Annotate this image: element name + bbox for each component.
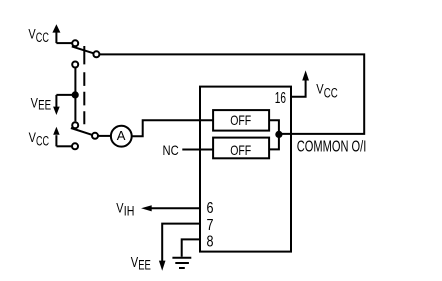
svg-text:EE: EE (38, 97, 51, 112)
svg-text:EE: EE (138, 257, 151, 272)
wire VCC arrow to switch S1b throw 2 (56, 145, 71, 147)
wire VEE arrow to junction (56, 94, 75, 96)
svg-text:7: 7 (207, 217, 214, 234)
svg-text:CC: CC (324, 86, 338, 101)
switch S1b throw contact 2 (VCC side) (72, 143, 78, 149)
power arrow VCC (pin 16) (302, 70, 309, 80)
switch S1a pole contact (93, 51, 99, 57)
supply label VEE (bottom) (131, 255, 151, 272)
switch S1b lever (71, 128, 92, 135)
switch S1a throw contact (VCC side) (72, 40, 78, 46)
svg-text:OFF: OFF (230, 142, 251, 158)
svg-text:16: 16 (275, 90, 286, 107)
svg-text:6: 6 (207, 200, 214, 217)
power arrow VEE (pin 7, pointing down) (159, 261, 166, 271)
switch S1a lever (72, 46, 93, 53)
ammeter A (111, 126, 132, 147)
ground symbol (172, 258, 191, 268)
svg-text:COMMON O/I: COMMON O/I (297, 139, 367, 156)
svg-text:OFF: OFF (230, 112, 251, 128)
OFF buffer 1 (213, 110, 269, 131)
wire ammeter to OFF buffer 1 input (132, 120, 213, 136)
svg-text:IH: IH (124, 204, 135, 219)
switch S1b throw contact (upper, VEE chain) (72, 122, 78, 128)
IC U1 outline (200, 87, 291, 252)
pin 7 wire (162, 224, 200, 261)
wire S1a pole to COMMON O/I node (top loop) (100, 54, 365, 133)
pin 16 wire (291, 80, 306, 97)
supply label VCC (top right) (316, 81, 338, 101)
svg-text:NC: NC (163, 142, 179, 158)
power arrow VCC (bottom left) (53, 127, 59, 147)
wire VCC arrow to switch S1a throw (56, 42, 72, 44)
signal label VIH (116, 200, 134, 219)
svg-text:CC: CC (36, 133, 49, 148)
power arrow VEE (left, pointing down) (53, 95, 60, 115)
supply label VCC (top left) (28, 26, 49, 46)
power arrow VCC (top left) (52, 24, 60, 43)
arrow VIH (pointing left) (141, 205, 152, 211)
pin 8 wire (182, 239, 200, 256)
pin 6 wire (151, 207, 200, 209)
switch S1b pole contact (92, 133, 98, 139)
svg-text:CC: CC (36, 30, 49, 45)
junction VEE tap (72, 91, 79, 98)
wire NC to OFF buffer 2 input (182, 149, 213, 151)
supply label VEE (left) (31, 94, 51, 112)
switch S1a throw contact 2 (lower) (72, 62, 78, 68)
OFF buffer 2 (213, 138, 269, 159)
svg-text:A: A (117, 128, 126, 143)
wire S1a throw 2 down to S1b throw (74, 68, 76, 122)
svg-text:8: 8 (207, 233, 214, 250)
mechanical gang link (dashed) (83, 46, 85, 124)
wire S1b pole to ammeter (98, 135, 111, 137)
junction COMMON node (275, 131, 282, 138)
supply label VCC (bottom left) (29, 129, 50, 149)
wire OFF buffer outputs joined (269, 120, 279, 149)
